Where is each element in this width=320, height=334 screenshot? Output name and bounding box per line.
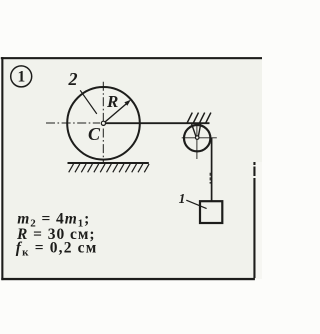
svg-text:R: R — [106, 92, 118, 111]
svg-text:1: 1 — [179, 191, 186, 206]
svg-text:2: 2 — [68, 69, 78, 89]
svg-text:C: C — [88, 124, 101, 144]
svg-text:1: 1 — [18, 69, 26, 86]
